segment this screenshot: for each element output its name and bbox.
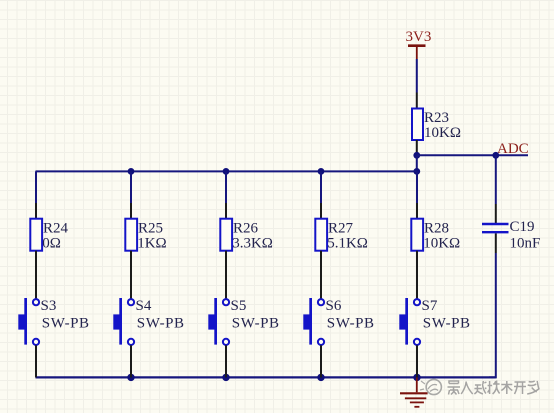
svg-text:S4: S4 [136, 298, 152, 314]
wire S7 to bottom bus [416, 345, 418, 377]
wire bus to R24 [35, 171, 37, 203]
capacitor C19 [482, 219, 540, 251]
junction [317, 374, 324, 381]
svg-text:R25: R25 [138, 221, 163, 237]
junction [128, 168, 135, 175]
pin R26.1 [225, 203, 227, 219]
svg-text:S7: S7 [422, 298, 438, 314]
resistor R28 [411, 219, 460, 252]
wire S4 to bottom bus [130, 345, 132, 377]
wire stub to top bus [416, 155, 418, 171]
svg-text:R23: R23 [424, 110, 449, 126]
pin C19.2 [495, 233, 497, 253]
pin R25.1 [130, 203, 132, 219]
switch S5 SW-PB [208, 298, 279, 345]
pin R24.1 [35, 203, 37, 219]
wire top bus [36, 170, 417, 172]
svg-text:1KΩ: 1KΩ [137, 235, 166, 251]
junction [223, 168, 230, 175]
wire S3 to bottom bus [35, 345, 37, 377]
watermark logo [420, 379, 441, 394]
svg-text:R27: R27 [328, 221, 354, 237]
wire bus to R26 [225, 171, 227, 203]
pin R27.1 [320, 203, 322, 219]
power 3V3 [406, 29, 432, 59]
wire ADC to C19 [495, 155, 497, 204]
switch S7 SW-PB [399, 298, 470, 345]
pin R27.2 [320, 251, 322, 299]
svg-text:SW-PB: SW-PB [423, 316, 471, 332]
wire 3V3 to R23 [416, 59, 418, 93]
svg-text:10nF: 10nF [510, 235, 541, 251]
svg-text:SW-PB: SW-PB [327, 316, 375, 332]
pin R26.2 [225, 251, 227, 299]
svg-text:10KΩ: 10KΩ [424, 125, 461, 141]
junction [413, 374, 420, 381]
wire bus to R25 [130, 171, 132, 203]
junction [413, 152, 420, 159]
resistor R27 [315, 219, 368, 252]
junction [413, 168, 420, 175]
svg-text:5.1KΩ: 5.1KΩ [327, 235, 368, 251]
pin R23.1 [416, 93, 418, 110]
switch S3 SW-PB [18, 298, 89, 345]
svg-text:3V3: 3V3 [406, 29, 432, 45]
ground [400, 377, 428, 406]
pin R24.2 [35, 251, 37, 299]
pin R25.2 [130, 251, 132, 299]
pin R28.2 [416, 251, 418, 299]
svg-text:S6: S6 [326, 298, 342, 314]
junction [222, 374, 229, 381]
svg-text:10KΩ: 10KΩ [423, 235, 460, 251]
wire S5 to bottom bus [225, 345, 227, 377]
junction [492, 152, 499, 159]
wire bus to R28 [416, 171, 418, 203]
svg-text:S3: S3 [41, 298, 57, 314]
resistor R24 [30, 219, 68, 252]
pin R28.1 [416, 203, 418, 219]
wire ADC horizontal [417, 154, 528, 156]
resistor R25 [125, 219, 166, 252]
svg-text:R28: R28 [424, 221, 449, 237]
svg-text:SW-PB: SW-PB [42, 316, 90, 332]
svg-text:3.3KΩ: 3.3KΩ [232, 235, 273, 251]
watermark text [448, 381, 540, 395]
svg-text:R26: R26 [233, 221, 259, 237]
wire bottom bus [36, 376, 496, 378]
junction [127, 374, 134, 381]
svg-text:S5: S5 [231, 298, 247, 314]
svg-text:0Ω: 0Ω [42, 235, 61, 251]
switch S6 SW-PB [303, 298, 374, 345]
wire C19 to bottom bus [489, 253, 496, 377]
svg-text:SW-PB: SW-PB [137, 316, 185, 332]
pin C19.1 [495, 204, 497, 223]
svg-text:R24: R24 [43, 221, 69, 237]
switch S4 SW-PB [113, 298, 184, 345]
junction [318, 168, 325, 175]
svg-text:SW-PB: SW-PB [232, 316, 280, 332]
wire S6 to bottom bus [320, 345, 322, 377]
pin R23.2 [416, 140, 418, 155]
resistor R26 [220, 219, 273, 252]
svg-text:ADC: ADC [497, 141, 529, 157]
svg-text:C19: C19 [510, 219, 535, 235]
wire bus to R27 [320, 171, 322, 203]
resistor R23 [412, 109, 461, 141]
